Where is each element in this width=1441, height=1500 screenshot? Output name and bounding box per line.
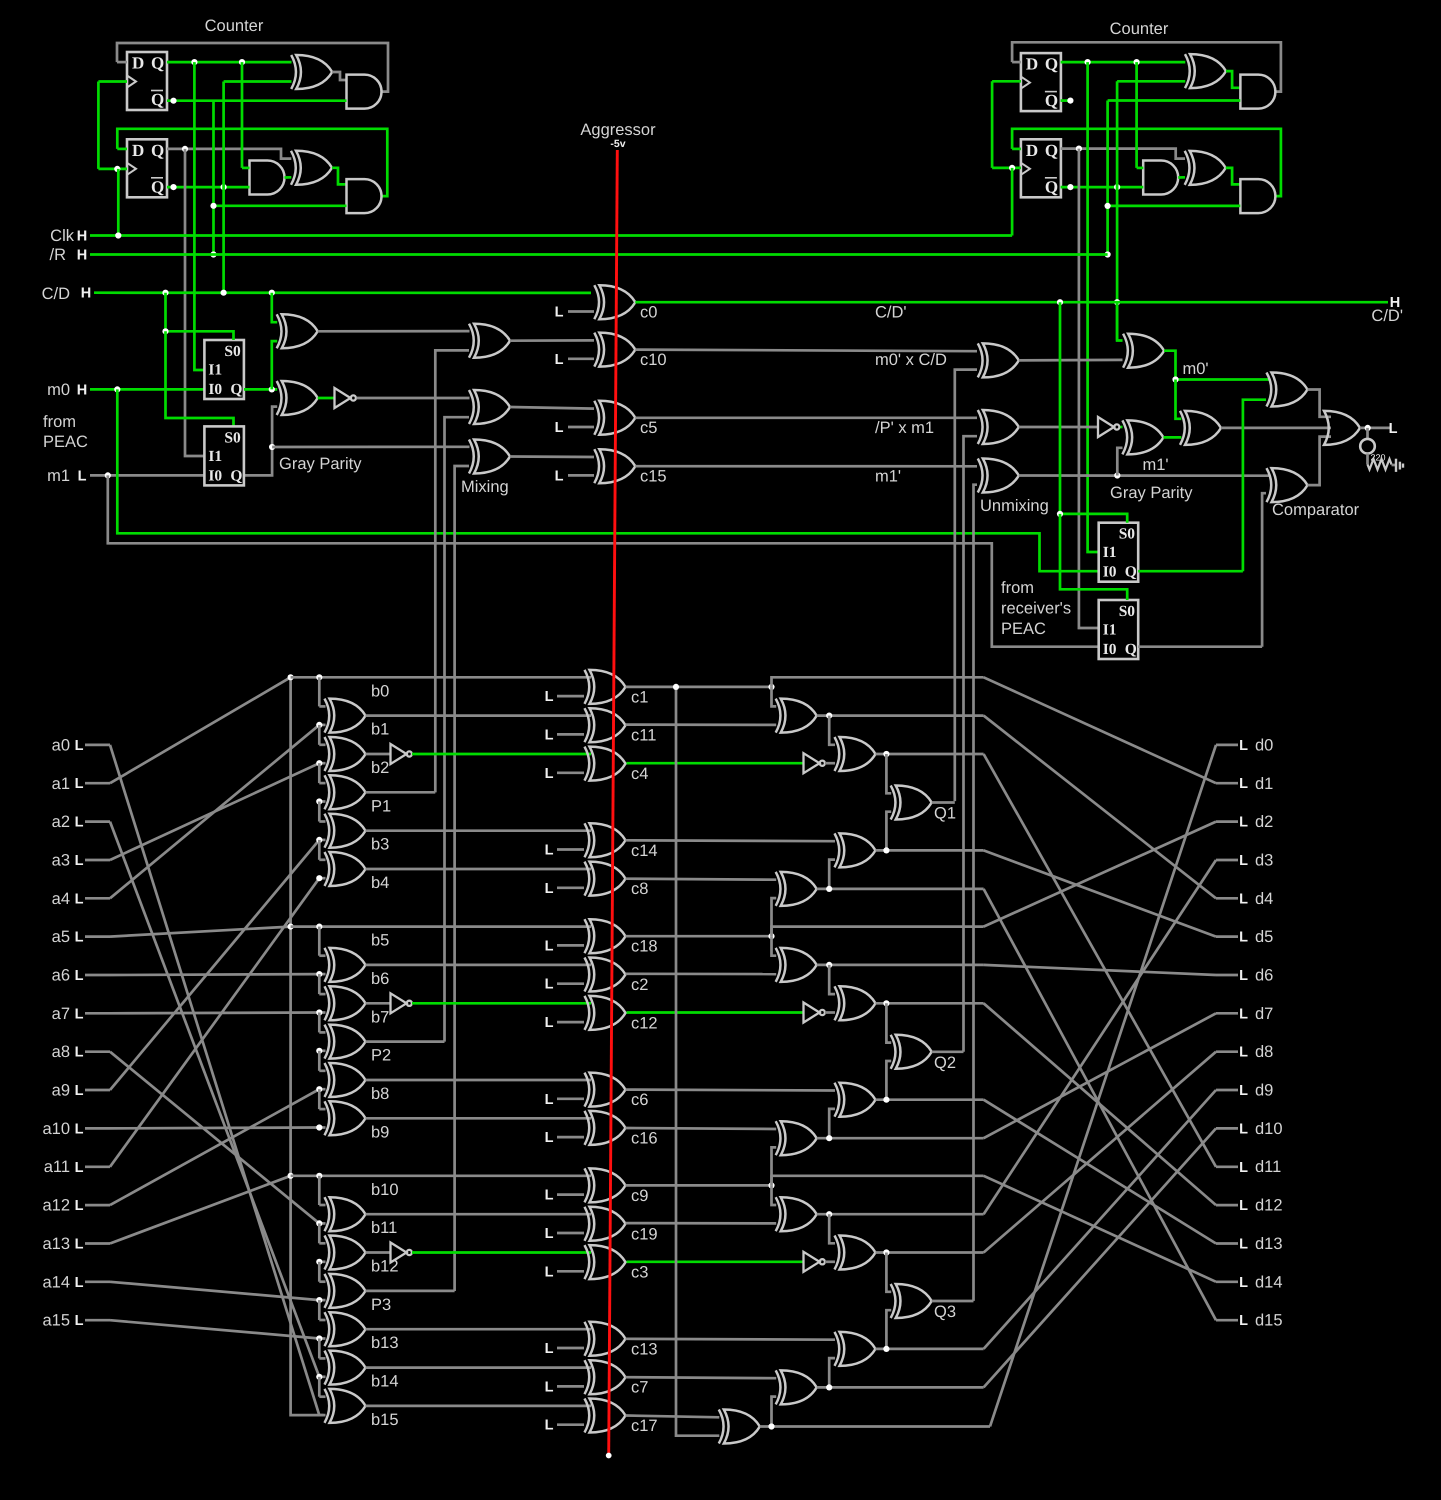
wire L stub c0 <box>568 310 594 313</box>
wire L2a down to L3a upper group3 <box>829 1214 835 1243</box>
wire A5 upper input <box>1137 167 1144 170</box>
wire b4 upper stub <box>319 858 325 861</box>
svg-text:b10: b10 <box>371 1181 399 1199</box>
xor gate X3 (right counter) <box>1185 54 1226 88</box>
inverter N1 (gray parity out) <box>335 388 356 408</box>
wire X4 out to AND6 <box>1226 168 1241 185</box>
svg-text:L: L <box>78 468 87 484</box>
xor gate L3a group3 <box>835 1236 876 1270</box>
wire c-inv green to inverter group3 <box>627 1260 804 1263</box>
svg-text:c4: c4 <box>631 765 648 783</box>
svg-text:a9: a9 <box>52 1082 70 1100</box>
wire a9 diagonal <box>110 840 319 1090</box>
and gate A5 (right counter) <box>1143 161 1178 195</box>
wire b2 out to inverter <box>366 753 391 756</box>
xor gate CompTop <box>1267 373 1308 407</box>
wire mux1 Q out <box>244 388 277 391</box>
svg-text:Q: Q <box>1045 177 1058 196</box>
svg-text:L: L <box>75 1006 84 1022</box>
svg-text:c5: c5 <box>640 419 657 437</box>
node Q2 junction <box>182 146 188 152</box>
wire X1 lower input <box>224 80 292 83</box>
wire LED to resistor <box>1366 454 1369 465</box>
node L3a out junction group2 <box>883 1000 889 1006</box>
wire b9 lower stub <box>319 1126 325 1129</box>
node b9 lower junction <box>316 1124 322 1130</box>
svg-text:Q: Q <box>1045 91 1058 110</box>
xor gate L3b group3 <box>835 1332 876 1366</box>
inverter N2 (right gray parity) <box>1098 417 1119 437</box>
xor gate UnmixG1 <box>978 343 1019 377</box>
node C/D' tap a <box>1057 299 1063 305</box>
xor gate bottom (c17 xor c1) <box>719 1410 760 1444</box>
node Q3-bar post <box>1067 98 1073 104</box>
node b7 lower junction <box>316 1009 322 1015</box>
wire mux3 Q out <box>1138 570 1243 573</box>
wire Q3 riser to UnmixG3 lower <box>974 485 978 1301</box>
wire b9 output row <box>366 1117 592 1120</box>
wire P3 lower stub <box>319 1299 325 1302</box>
xor gate c15 <box>594 449 635 483</box>
wire diagonal to d15 <box>984 889 1216 1320</box>
wire /R-net to AND6 lower input <box>1108 205 1241 208</box>
mux M3 (receiver m0') <box>1099 523 1139 582</box>
svg-text:b7: b7 <box>371 1008 389 1026</box>
svg-text:L: L <box>545 1226 554 1242</box>
xor gate b11 <box>325 1197 366 1231</box>
node C/D tap1 <box>162 290 168 296</box>
wire DFF2 D input <box>117 148 127 151</box>
wire P3 output to bus <box>366 1290 455 1293</box>
wire m0'xC/D line to UnmixG1 <box>635 350 977 352</box>
wire Clk line <box>90 234 1012 237</box>
svg-text:Q: Q <box>1125 641 1137 658</box>
svg-text:C/D: C/D <box>42 285 71 303</box>
svg-text:L: L <box>75 1237 84 1253</box>
wire L3a down to Q1 upper <box>886 754 891 793</box>
svg-text:L: L <box>545 977 554 993</box>
svg-text:D: D <box>132 54 144 73</box>
node L3a out junction group3 <box>883 1249 889 1255</box>
wire m0' elbow <box>1164 351 1270 380</box>
svg-text:L: L <box>555 420 564 436</box>
xor gate c14 <box>585 823 626 857</box>
wire c-first up to row group3 <box>772 1176 984 1186</box>
svg-text:d5: d5 <box>1255 928 1273 946</box>
wire L stub c6 <box>557 1097 584 1100</box>
svg-text:a10: a10 <box>42 1120 70 1138</box>
and gate A4 (right counter) <box>1240 75 1275 109</box>
wire m1' line to UnmixG3 <box>635 465 977 468</box>
wire Clk riser right <box>1011 168 1014 236</box>
node P2 lower junction <box>316 1048 322 1054</box>
wire c-inv green to inverter group1 <box>627 762 804 765</box>
svg-text:C/D': C/D' <box>1371 307 1403 325</box>
svg-text:L: L <box>545 1379 554 1395</box>
wire a11 stub <box>85 1165 110 1168</box>
svg-text:a6: a6 <box>52 967 70 985</box>
wire a5 stub <box>85 935 110 938</box>
svg-text:L: L <box>545 727 554 743</box>
wire b5 row <box>291 925 591 928</box>
wire diagonal to d6 <box>984 965 1216 975</box>
xor gate c5 <box>594 401 635 435</box>
svg-text:P3: P3 <box>371 1296 391 1314</box>
svg-text:d14: d14 <box>1255 1273 1283 1291</box>
svg-text:Comparator: Comparator <box>1272 501 1360 519</box>
wire L stub c9 <box>557 1193 584 1196</box>
wire b8 lower stub <box>319 1088 325 1091</box>
wire chain segment into b4 upper <box>318 840 321 860</box>
node L2b out junction group1 <box>826 886 832 892</box>
wire C/D' line <box>635 301 1388 304</box>
svg-text:P1: P1 <box>371 797 391 815</box>
svg-text:d11: d11 <box>1255 1158 1281 1176</box>
svg-text:Q: Q <box>230 467 242 484</box>
wire DFF4 clk stub <box>992 167 1021 170</box>
svg-text:Q1: Q1 <box>934 805 956 823</box>
svg-text:I0: I0 <box>1103 641 1117 658</box>
wire L stub c13 <box>557 1347 584 1350</box>
wire diagonal to d12 <box>984 1003 1216 1205</box>
wire c-second to L2a lower group1 <box>626 723 777 726</box>
wire a12 diagonal <box>110 1089 319 1205</box>
xor gate GP2 (left Gray Parity) <box>277 381 318 415</box>
svg-text:L: L <box>1239 776 1248 792</box>
wire b12 lower stub <box>319 1260 325 1263</box>
svg-text:m1': m1' <box>1143 456 1169 474</box>
wire vertical AND3-lower to /R <box>212 101 215 255</box>
wire a4 stub <box>85 897 110 900</box>
node L2b out junction group3 <box>826 1384 832 1390</box>
wire diagonal to d13 <box>984 1100 1216 1244</box>
wire L3b out group1 <box>876 849 984 852</box>
wire XORmid out to OR final <box>1221 427 1331 430</box>
xor gate MixG2 <box>469 390 510 424</box>
wire mux1Q up to GP1 lower <box>272 341 277 389</box>
wire b15 upper stub <box>319 1395 325 1398</box>
wire L stub c1 <box>557 695 584 698</box>
svg-text:c17: c17 <box>631 1417 658 1435</box>
wire c to L3b upper group1 <box>626 839 836 843</box>
wire vertical Q1 to mux1 I1 <box>194 62 204 370</box>
xor gate X4 (right counter) <box>1185 151 1226 185</box>
node L2a out junction group2 <box>826 962 832 968</box>
node C/D' S0 tee <box>1057 511 1063 517</box>
wire diagonal to d4 <box>984 716 1216 899</box>
xor gate L2a group2 <box>776 948 817 982</box>
svg-text:a12: a12 <box>42 1197 70 1215</box>
node L2a out junction group3 <box>826 1211 832 1217</box>
svg-text:Q: Q <box>1045 55 1058 74</box>
svg-text:L: L <box>545 843 554 859</box>
wire Aggressor -5v line <box>609 150 618 1456</box>
wire a10 stub <box>85 1127 110 1130</box>
wire L stub c8 <box>557 886 584 889</box>
wire diagonal to d11 <box>984 754 1216 1167</box>
svg-text:L: L <box>1239 738 1248 754</box>
svg-text:a3: a3 <box>52 852 70 870</box>
xor gate c6 <box>585 1073 626 1107</box>
svg-text:c8: c8 <box>631 880 648 898</box>
wire a7 diagonal <box>110 1011 319 1014</box>
wire L stub c4 <box>557 771 584 774</box>
wire C/D to mux1 S0 <box>166 293 234 340</box>
node L3a out junction group1 <box>883 751 889 757</box>
wire a3 diagonal <box>110 763 319 860</box>
svg-text:H: H <box>77 248 87 264</box>
node b6 lower junction <box>316 971 322 977</box>
wire b10 row <box>291 1174 591 1177</box>
wire b13 output row <box>366 1328 592 1331</box>
wire vertical AND6-lower to /R <box>1106 101 1109 255</box>
node b5 chain tap <box>316 924 322 930</box>
wire L3b up to Q3 lower <box>886 1310 891 1349</box>
wire chain segment into P2 upper <box>318 1013 321 1033</box>
wire L stub c2 <box>557 982 584 985</box>
wire C/D' down to mux3 S0 <box>1060 302 1127 523</box>
wire d11 stub <box>1216 1165 1238 1168</box>
svg-text:a14: a14 <box>42 1273 70 1291</box>
xor gate Xm1 (m1') <box>1122 420 1163 454</box>
svg-text:L: L <box>545 689 554 705</box>
node P1 lower junction <box>316 798 322 804</box>
xor gate X2 (left counter) <box>291 151 332 185</box>
D flip-flop U2 (left counter bit1) <box>127 139 167 197</box>
svg-text:from: from <box>1001 579 1034 597</box>
xor gate P2 <box>325 1025 366 1059</box>
wire a7 stub <box>85 1012 110 1015</box>
wire chain segment into P1 upper <box>318 763 321 783</box>
svg-text:L: L <box>1239 1198 1248 1214</box>
D flip-flop U3 (right counter bit0) <box>1021 53 1061 111</box>
svg-text:S0: S0 <box>1119 526 1136 543</box>
wire P' long line to MixG3 <box>272 445 469 448</box>
wire b11 output row <box>366 1213 592 1216</box>
node P' tee <box>269 444 275 450</box>
wire L3a out group2 <box>876 1002 984 1005</box>
xor gate c4 <box>585 747 626 781</box>
wire a0 diagonal <box>110 745 319 1415</box>
inverter before L3a group3 <box>804 1252 825 1272</box>
wire DFF3 feedback box (gray) <box>1012 42 1281 91</box>
svg-text:L: L <box>555 305 564 321</box>
xor gate UnmixG2 <box>978 410 1019 444</box>
svg-text:d4: d4 <box>1255 890 1273 908</box>
svg-text:L: L <box>1239 1160 1248 1176</box>
xor gate L3b group2 <box>835 1083 876 1117</box>
wire vertical Q3 to AND5 upper <box>1135 62 1138 168</box>
svg-text:c3: c3 <box>631 1264 648 1282</box>
wire b6 output row <box>366 964 592 967</box>
wire P3 bus riser <box>455 466 469 1291</box>
svg-text:c13: c13 <box>631 1340 658 1358</box>
wire DFF4 D input <box>1012 148 1021 151</box>
wire a6 stub <box>85 974 110 977</box>
wire L stub c11 <box>557 733 584 736</box>
node C/D tap3 <box>269 290 275 296</box>
svg-text:C/D': C/D' <box>875 304 907 322</box>
svg-text:L: L <box>75 1313 84 1329</box>
wire L2b up to L3b lower group1 <box>829 860 835 889</box>
xor gate c19 <box>585 1207 626 1241</box>
wire P3 upper stub <box>319 1280 325 1283</box>
wire UnmixG1 out to rGP1 lower <box>1019 359 1123 362</box>
inverter before L3a group2 <box>804 1003 825 1023</box>
wire chain segment into b15 upper <box>318 1377 321 1397</box>
xor gate L2b group3 <box>776 1370 817 1404</box>
node b3 lower junction <box>316 837 322 843</box>
xor gate L3a group1 <box>835 737 876 771</box>
wire Q4-bar stub <box>1061 186 1144 189</box>
xor gate b7 <box>325 986 366 1020</box>
wire Q3 output <box>1061 61 1186 64</box>
svg-text:c0: c0 <box>640 304 657 322</box>
svg-text:a13: a13 <box>42 1235 70 1253</box>
svg-text:b11: b11 <box>371 1219 397 1237</box>
wire d1 stub <box>1216 782 1238 785</box>
svg-text:L: L <box>1239 1083 1248 1099</box>
wire L stub c15 <box>568 474 594 477</box>
svg-text:d8: d8 <box>1255 1043 1273 1061</box>
svg-text:c12: c12 <box>631 1014 658 1032</box>
and gate A2 (left counter) <box>250 161 285 195</box>
wire mux3Q riser to CompTop lower <box>1243 400 1266 572</box>
node P3 lower junction <box>316 1297 322 1303</box>
xor gate c18 <box>585 919 626 953</box>
svg-text:d10: d10 <box>1255 1120 1283 1138</box>
xor gate c9 <box>585 1168 626 1202</box>
wire Q3 out to unmix riser <box>932 1300 974 1303</box>
inverter before L3a group1 <box>804 753 825 773</box>
wire L3b out group2 <box>876 1098 984 1101</box>
wire c to L3b upper group3 <box>626 1337 836 1341</box>
wire chain segment into b11 upper <box>318 1176 321 1205</box>
svg-text:b13: b13 <box>371 1334 399 1352</box>
xor gate P3 <box>325 1274 366 1308</box>
wire CompBottom out elbow <box>1308 437 1332 486</box>
wire L2a out group2 <box>817 964 984 967</box>
wire b11 upper stub <box>319 1204 325 1207</box>
svg-text:d2: d2 <box>1255 813 1273 831</box>
svg-text:Q: Q <box>151 141 164 160</box>
node aggressor bottom post <box>606 1453 612 1459</box>
wire P2 lower stub <box>319 1049 325 1052</box>
LED D1 <box>1360 439 1375 454</box>
svg-text:a2: a2 <box>52 813 70 831</box>
wire /R-net to AND4 lower input <box>1108 99 1241 102</box>
wire L stub c17 <box>557 1423 584 1426</box>
wire L stub c10 <box>568 357 594 360</box>
wire Q2 output <box>167 149 291 159</box>
node m1 tap <box>105 472 111 478</box>
wire a8 stub <box>85 1050 110 1053</box>
wire MixG2 out to c5 upper <box>510 407 594 409</box>
svg-text:L: L <box>545 1341 554 1357</box>
wire m0' down to XORmid upper <box>1176 380 1182 419</box>
wire b3 output row <box>366 829 592 832</box>
wire L3b up to Q1 lower <box>886 812 891 851</box>
svg-text:b14: b14 <box>371 1373 399 1391</box>
svg-text:L: L <box>1389 421 1398 437</box>
wire d15 stub <box>1216 1319 1238 1322</box>
wire inv out to L3a lower group1 <box>825 762 835 765</box>
svg-text:S0: S0 <box>1119 603 1136 620</box>
wire DFF4 feedback box (green) <box>1012 129 1281 196</box>
wire N1 out to MixG2 <box>357 397 470 400</box>
wire d10 stub <box>1216 1127 1238 1130</box>
svg-text:L: L <box>75 930 84 946</box>
svg-text:from: from <box>43 413 76 431</box>
node L2a out junction group1 <box>826 713 832 719</box>
wire a15 diagonal <box>110 1320 319 1338</box>
wire a4 diagonal <box>110 725 319 898</box>
svg-text:H: H <box>81 286 91 302</box>
wire d13 stub <box>1216 1242 1238 1245</box>
svg-text:L: L <box>1239 891 1248 907</box>
wire vertical X1-lower to C/D <box>222 82 225 293</box>
wire a2 diagonal <box>110 822 319 1377</box>
svg-text:I0: I0 <box>1103 564 1117 581</box>
wire L3b out group3 <box>876 1348 984 1351</box>
xor gate c3 <box>585 1245 626 1279</box>
wire a14 diagonal <box>110 1282 319 1300</box>
svg-text:Gray Parity: Gray Parity <box>1110 484 1193 502</box>
wire d14 stub <box>1216 1280 1238 1283</box>
wire a3 stub <box>85 859 110 862</box>
wire d4 stub <box>1216 897 1238 900</box>
svg-text:c14: c14 <box>631 842 658 860</box>
wire b12 inverted (green) to c gate <box>412 1251 591 1254</box>
xor gate GP1 (left Gray Parity) <box>277 314 318 348</box>
wire chain segment into b6 upper <box>318 927 321 956</box>
xor gate c13 <box>585 1322 626 1356</box>
svg-text:d0: d0 <box>1255 736 1273 754</box>
wire C/D down to GP1 upper <box>272 293 277 323</box>
svg-text:S0: S0 <box>224 429 241 446</box>
wire a12 stub <box>85 1204 110 1207</box>
xor gate L3b group1 <box>835 833 876 867</box>
svg-text:a7: a7 <box>52 1005 70 1023</box>
wire Q2 riser to UnmixG2 lower <box>964 436 978 1051</box>
node Clk tap <box>115 232 121 238</box>
wire a13 diagonal <box>110 1176 291 1244</box>
svg-text:L: L <box>545 1264 554 1280</box>
wire b3 upper stub <box>319 820 325 823</box>
wire b14 upper stub <box>319 1357 325 1360</box>
wire b13 lower stub <box>319 1337 325 1340</box>
svg-text:Counter: Counter <box>205 17 264 35</box>
wire Clk riser <box>117 169 120 236</box>
wire L2a down to L3a upper group1 <box>829 716 835 745</box>
wire mux1 I0 is m0 line <box>203 388 206 391</box>
svg-text:b2: b2 <box>371 759 389 777</box>
svg-text:d6: d6 <box>1255 967 1273 985</box>
node AND3-lower junction <box>210 203 216 209</box>
wire a8 diagonal <box>110 1052 319 1224</box>
wire b8 upper stub <box>319 1069 325 1072</box>
wire Q1bar-net to AND3 lower input <box>214 204 347 207</box>
wire chain segment into P3 upper <box>318 1262 321 1282</box>
node S0 tee <box>162 328 168 334</box>
wire b9 upper stub <box>319 1108 325 1111</box>
svg-text:L: L <box>1239 853 1248 869</box>
wire mux4Q riser to CompBottom lower <box>1262 493 1266 647</box>
wire next-cfirst up to L2b lower group2 <box>772 1147 777 1185</box>
wire chain segment into b14 upper <box>318 1339 321 1359</box>
wire b4 output row <box>366 868 592 871</box>
svg-text:L: L <box>1239 1045 1248 1061</box>
